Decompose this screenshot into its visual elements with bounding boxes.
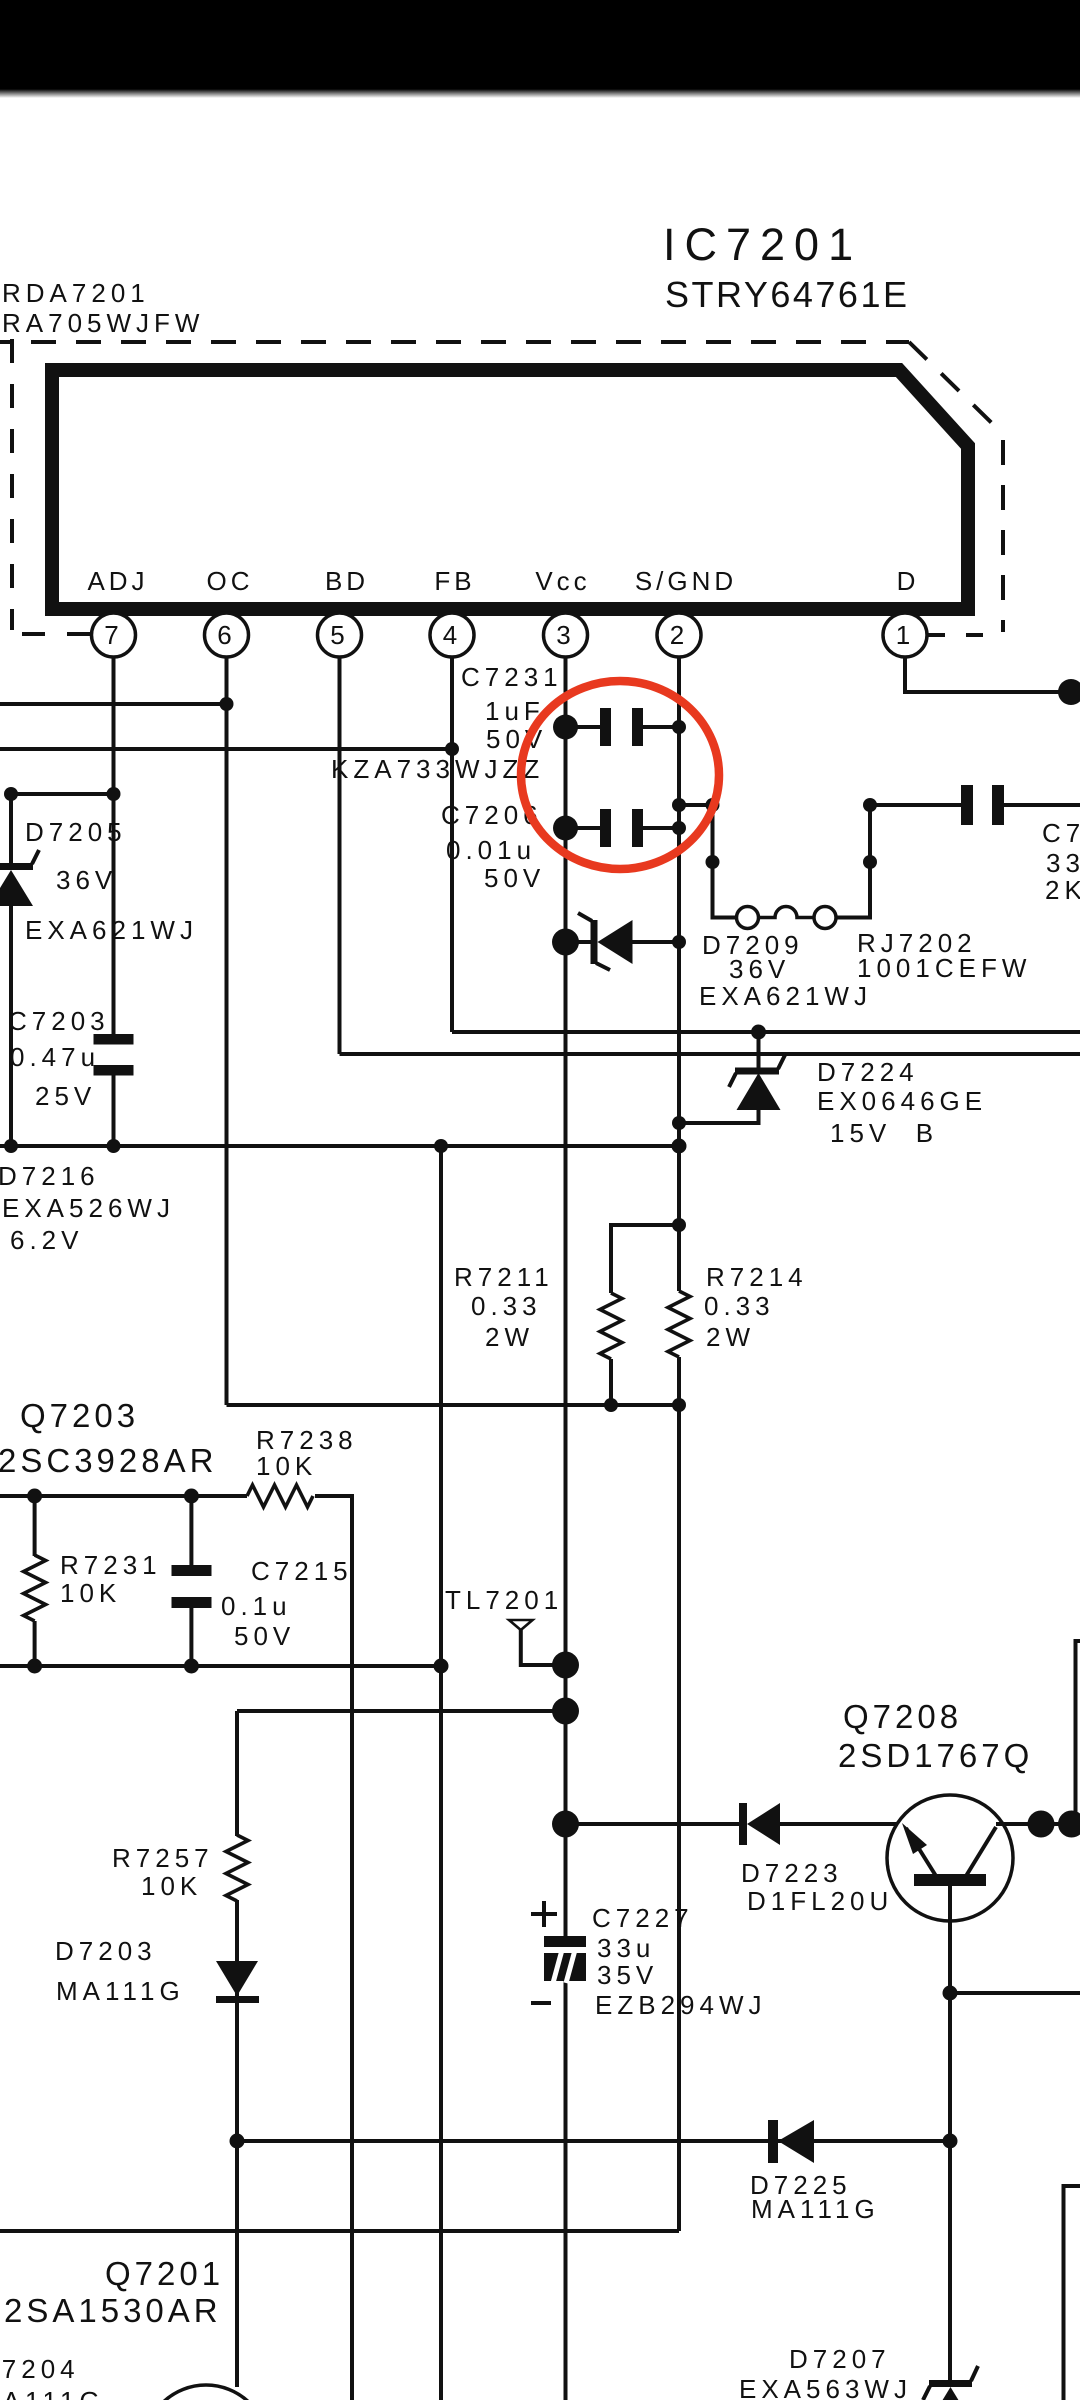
wire pin3 vertical long	[564, 657, 568, 1936]
node pin3 base rail	[552, 1698, 579, 1725]
svg-text:D7203: D7203	[55, 1936, 157, 1966]
wire Q7208 emitter vertical	[948, 1886, 952, 2381]
svg-text:R7231: R7231	[60, 1550, 162, 1580]
svg-text:D7223: D7223	[741, 1858, 843, 1888]
wire R7231 bottom lead	[33, 1621, 37, 1666]
svg-text:3: 3	[556, 620, 574, 650]
wire D7205 anode lead	[9, 904, 13, 1146]
pin 1	[883, 613, 927, 657]
wire x237 vertical lower	[235, 1900, 239, 2387]
svg-text:D7204: D7204	[0, 2354, 80, 2384]
svg-text:33: 33	[1046, 848, 1080, 878]
wire C7215 top lead	[189, 1496, 193, 1565]
electrolytic capacitor C7227	[531, 1901, 767, 2020]
resistor R7238	[247, 1425, 358, 1507]
jumper RJ7202	[737, 907, 837, 929]
diode D7225	[750, 2120, 880, 2224]
transistor Q7208	[887, 1795, 1013, 1921]
wire base rail to x237	[237, 1709, 566, 1713]
node pin3 TL7201	[552, 1652, 579, 1679]
svg-text:R7214: R7214	[706, 1262, 808, 1292]
wire pin4 horizontal to right edge	[452, 1030, 1080, 1034]
svg-text:10K: 10K	[141, 1871, 202, 1901]
svg-text:6.2V: 6.2V	[10, 1225, 84, 1255]
svg-text:EX0646GE: EX0646GE	[817, 1086, 987, 1116]
wire partial box bottom right	[1064, 2186, 1080, 2400]
wire D7223 to Q7208 base	[780, 1822, 897, 1826]
ground bus nodes	[4, 1139, 18, 1153]
svg-text:4: 4	[443, 620, 461, 650]
wire pin2 bottom jog to pin3 line	[566, 2229, 680, 2233]
svg-text:R7257: R7257	[112, 1843, 214, 1873]
svg-text:BD: BD	[325, 566, 369, 596]
svg-text:5: 5	[330, 620, 348, 650]
top black banner	[0, 0, 1080, 89]
wire C7215 bottom lead	[189, 1608, 193, 1666]
wire Q7203 bottom rail	[0, 1664, 441, 1668]
zener diode D7207	[923, 2366, 978, 2400]
test point TL7201	[445, 1585, 563, 1630]
svg-text:10K: 10K	[60, 1578, 121, 1608]
svg-text:D7205: D7205	[25, 817, 127, 847]
svg-text:Q7208: Q7208	[843, 1698, 962, 1735]
svg-text:IC7201: IC7201	[663, 219, 862, 270]
node x237 D7225 rail	[230, 2134, 245, 2149]
svg-text:D7216: D7216	[0, 1161, 100, 1191]
node x441 ground rail	[434, 1659, 449, 1674]
node pin1 right	[1058, 679, 1080, 705]
resistor R7257	[112, 1835, 248, 1901]
node emitter D7225 rail	[943, 2134, 958, 2149]
dashed package outline bottom-right segment	[928, 633, 1003, 637]
wire emitter node to right edge	[950, 1991, 1080, 1995]
svg-text:2: 2	[670, 620, 688, 650]
svg-text:R7211: R7211	[454, 1262, 554, 1292]
capacitor C7203	[8, 1006, 134, 1111]
svg-text:0.01u: 0.01u	[446, 835, 536, 865]
wire pin3 vertical below C7227	[564, 1981, 568, 2400]
svg-text:35V: 35V	[597, 1960, 658, 1990]
zener diode D7205	[0, 787, 198, 945]
svg-text:MA111G: MA111G	[751, 2194, 880, 2224]
svg-text:2K: 2K	[1045, 875, 1080, 905]
wire D7205 cathode lead	[9, 794, 13, 866]
wire Q7203 top rail	[0, 1494, 247, 1498]
node emitter C7227 rail	[943, 1986, 958, 2001]
wire D7225 rail	[237, 2139, 950, 2143]
wire pin6 vertical	[225, 657, 229, 1405]
wire D7224 branch	[757, 1032, 761, 1069]
svg-text:1: 1	[896, 620, 914, 650]
wire x441 vertical	[439, 1146, 443, 2400]
IC7201 body box	[52, 370, 968, 609]
node Q7208 collector a	[1028, 1811, 1055, 1838]
node jumper right mid	[863, 855, 877, 869]
wire pin1 drop	[905, 657, 1080, 692]
diode D7223	[739, 1803, 893, 1916]
capacitor C7206	[441, 800, 686, 893]
svg-text:D: D	[897, 566, 920, 596]
dashed package outline RDA7201 top edge	[0, 340, 909, 344]
wire D7224 anode to pin2 line	[679, 1110, 759, 1123]
node Q7208 collector b	[1058, 1811, 1080, 1838]
svg-text:2SD1767Q: 2SD1767Q	[838, 1737, 1033, 1774]
svg-text:15V B: 15V B	[830, 1118, 938, 1148]
wire pin2 vertical lower	[677, 1357, 681, 2231]
svg-text:0.33: 0.33	[471, 1291, 542, 1321]
wire pin5 horizontal to right edge	[340, 1052, 1080, 1056]
svg-text:10K: 10K	[256, 1451, 317, 1481]
capacitor C7215	[172, 1489, 353, 1674]
svg-text:0.47u: 0.47u	[10, 1042, 100, 1072]
svg-text:FB: FB	[434, 566, 475, 596]
svg-text:RDA7201: RDA7201	[2, 278, 150, 308]
svg-text:2W: 2W	[485, 1322, 534, 1352]
svg-text:33u: 33u	[597, 1933, 655, 1963]
svg-text:D7207: D7207	[789, 2344, 891, 2374]
pin 4	[430, 613, 474, 657]
svg-text:36V: 36V	[56, 865, 117, 895]
node jumper left mid	[706, 855, 720, 869]
svg-text:KZA733WJZZ: KZA733WJZZ	[331, 754, 544, 784]
pin 3	[544, 613, 588, 657]
node jumper right corner	[863, 798, 877, 812]
svg-text:Q7201: Q7201	[105, 2255, 224, 2292]
node pin2/C7206 net	[672, 798, 686, 812]
pin 2	[657, 613, 701, 657]
capacitor C7204 right edge	[961, 785, 1080, 905]
wire pin2 vertical upper	[677, 657, 681, 1291]
wire D7205 top to pin7 line	[11, 792, 114, 796]
annotation red circle	[521, 681, 719, 869]
wire R7231 top lead	[33, 1496, 37, 1556]
svg-text:Q7203: Q7203	[20, 1397, 139, 1434]
node pin3 D7223	[552, 1811, 579, 1838]
wire C7206 net to jumper riser	[679, 805, 737, 918]
svg-text:C7231: C7231	[461, 662, 563, 692]
svg-text:36V: 36V	[729, 954, 790, 984]
svg-text:25V: 25V	[35, 1081, 96, 1111]
dashed package outline right edge	[1001, 440, 1005, 632]
dashed package outline left edge	[10, 339, 14, 630]
svg-text:D7224: D7224	[817, 1057, 919, 1087]
wire Q7208 collector to right	[996, 1822, 1076, 1826]
svg-text:Vcc: Vcc	[535, 566, 590, 596]
svg-text:1001CEFW: 1001CEFW	[857, 953, 1031, 983]
svg-text:50V: 50V	[234, 1621, 295, 1651]
dashed package outline bottom-left segment	[22, 632, 90, 636]
wire left edge to pin4 node (FB)	[0, 747, 452, 751]
wire R7238 right lead and drop x352	[315, 1496, 352, 2400]
svg-text:C7215: C7215	[251, 1556, 353, 1586]
svg-text:EXA621WJ: EXA621WJ	[25, 915, 198, 945]
svg-text:EXA526WJ: EXA526WJ	[2, 1193, 175, 1223]
zener diode D7209	[552, 913, 872, 1011]
wire bottom rail y2231	[0, 2229, 679, 2233]
svg-text:MA111G: MA111G	[0, 2386, 105, 2400]
wire pin5 vertical	[338, 657, 342, 1054]
wire ground bus y1146	[0, 1144, 679, 1148]
wire pin6 horizontal to pin2 net	[227, 1403, 680, 1407]
svg-text:C7: C7	[1042, 818, 1080, 848]
wire left edge to pin6 node	[0, 702, 227, 706]
svg-text:OC: OC	[207, 566, 254, 596]
svg-text:D1FL20U: D1FL20U	[747, 1886, 893, 1916]
wire R7211 bottom lead	[609, 1359, 613, 1405]
svg-text:0.33: 0.33	[704, 1291, 775, 1321]
svg-text:EXA621WJ: EXA621WJ	[699, 981, 872, 1011]
diode D7203	[55, 1936, 259, 2006]
wire pin4 vertical	[450, 657, 454, 1032]
svg-text:EZB294WJ: EZB294WJ	[595, 1990, 767, 2020]
wire x237 vertical upper	[235, 1711, 239, 1836]
svg-text:2W: 2W	[706, 1322, 755, 1352]
node pin6 left rail	[220, 697, 234, 711]
svg-text:TL7201: TL7201	[445, 1585, 563, 1615]
dashed package outline diagonal corner	[909, 342, 1003, 434]
svg-text:STRY64761E: STRY64761E	[665, 274, 909, 315]
wire jumper right riser to cap	[836, 805, 962, 918]
transistor Q7201 circle	[144, 2385, 268, 2400]
resistor R7211	[454, 1218, 686, 1412]
resistor R7214	[668, 1262, 808, 1412]
svg-text:S/GND: S/GND	[635, 566, 737, 596]
svg-text:RA705WJFW: RA705WJFW	[2, 308, 204, 338]
node jumper left corner	[706, 798, 720, 812]
svg-text:MA111G: MA111G	[56, 1976, 185, 2006]
wire R7211 branch from pin2	[611, 1225, 679, 1293]
pin 5	[318, 613, 362, 657]
wire right edge drop to Q7208	[1076, 1641, 1080, 1824]
wire TL7201 stub	[521, 1630, 566, 1665]
node pin4 FB rail	[445, 742, 459, 756]
capacitor C7231	[461, 662, 686, 754]
svg-text:50V: 50V	[484, 863, 545, 893]
resistor R7231	[24, 1489, 162, 1674]
wire pin7 vertical upper	[112, 657, 116, 1035]
svg-text:6: 6	[217, 620, 235, 650]
pin 6	[205, 613, 249, 657]
svg-text:0.1u: 0.1u	[221, 1591, 292, 1621]
wire pin7 vertical lower	[112, 1075, 116, 1146]
svg-text:ADJ: ADJ	[87, 566, 148, 596]
svg-text:C7203: C7203	[8, 1006, 110, 1036]
svg-text:EXA563WJ: EXA563WJ	[739, 2374, 912, 2400]
wire pin3 node to D7223	[566, 1822, 741, 1826]
svg-text:2SA1530AR: 2SA1530AR	[4, 2292, 222, 2329]
pin 7	[92, 613, 136, 657]
svg-text:C7227: C7227	[592, 1903, 694, 1933]
wire right cap to edge	[1003, 803, 1080, 807]
svg-text:7: 7	[104, 620, 122, 650]
zener diode D7224	[672, 1025, 987, 1149]
svg-text:2SC3928AR: 2SC3928AR	[0, 1442, 217, 1479]
